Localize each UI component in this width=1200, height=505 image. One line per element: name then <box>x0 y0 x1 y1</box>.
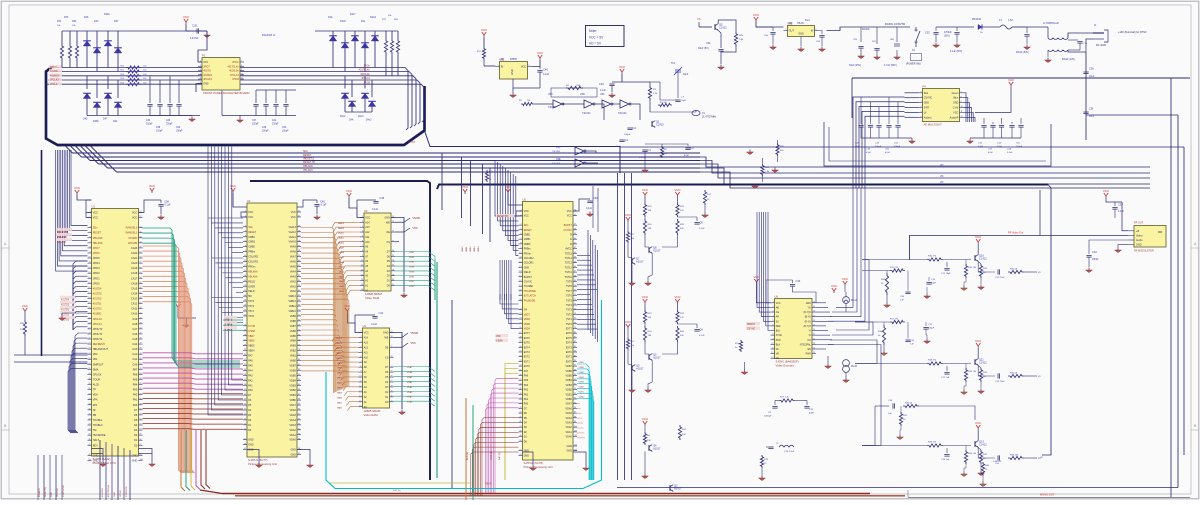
svg-text:VDA7: VDA7 <box>407 366 413 369</box>
svg-text:15pF: 15pF <box>681 100 687 102</box>
svg-text:4: 4 <box>89 226 90 228</box>
svg-text:0.1uF: 0.1uF <box>321 204 328 207</box>
svg-text:VAB9: VAB9 <box>290 315 297 318</box>
svg-text:(B-Y)I: (B-Y)I <box>805 317 811 319</box>
svg-text:VDA: VDA <box>93 394 98 397</box>
svg-text:2: 2 <box>360 336 361 338</box>
svg-text:RAMSEL2: RAMSEL2 <box>126 227 138 230</box>
ground U51 <box>513 79 540 88</box>
svg-text:VBD4: VBD4 <box>524 328 531 331</box>
svg-text:5M: 5M <box>248 295 251 298</box>
svg-text:11: 11 <box>520 257 522 259</box>
power VCC buffer stage Q9 <box>642 295 649 304</box>
diode D50 PR1S40 <box>936 26 974 28</box>
svg-text:C40: C40 <box>166 120 171 122</box>
svg-text:6: 6 <box>362 240 363 242</box>
svg-text:EXT6: EXT6 <box>524 337 531 340</box>
svg-text:IN: IN <box>811 30 814 33</box>
svg-text:58: 58 <box>140 247 142 249</box>
svg-text:51: 51 <box>298 216 300 218</box>
svg-text:DC/DC CONVTR: DC/DC CONVTR <box>885 22 905 26</box>
svg-text:CA9: CA9 <box>132 318 137 321</box>
net labels PPU2 left red <box>496 214 514 217</box>
svg-text:A10: A10 <box>365 241 370 244</box>
svg-text:C54: C54 <box>706 42 711 45</box>
svg-text:66: 66 <box>574 266 576 268</box>
svg-text:84: 84 <box>298 379 300 381</box>
svg-text:VCC: VCC <box>619 65 626 69</box>
svg-text:20: 20 <box>813 329 815 331</box>
resistor R2 2M <box>660 146 663 158</box>
wire orange vertical to bottom <box>465 398 467 500</box>
svg-text:72: 72 <box>140 317 142 319</box>
svg-text:A14: A14 <box>365 221 370 224</box>
svg-text:TM: TM <box>93 429 97 432</box>
svg-text:33: 33 <box>244 369 246 371</box>
svg-text:DAT (6): DAT (6) <box>498 452 501 460</box>
svg-text:GND: GND <box>953 102 959 105</box>
svg-text:HVCMODE: HVCMODE <box>524 290 537 293</box>
svg-text:PA4: PA4 <box>248 369 253 372</box>
svg-text:7: 7 <box>961 91 962 93</box>
capacitor C36 C38 C40 C42 (port filter) <box>149 76 151 103</box>
svg-text:Note:: Note: <box>589 29 597 33</box>
svg-text:VDB3: VDB3 <box>566 384 573 387</box>
power VCC encoder <box>753 275 760 284</box>
svg-text:CA22: CA22 <box>131 252 138 255</box>
svg-text:TST8: TST8 <box>566 285 573 288</box>
wire bottom rail 1 <box>617 487 1178 489</box>
svg-text:VCC: VCC <box>481 28 488 32</box>
svg-text:C2: C2 <box>691 146 695 150</box>
svg-text:MONO OUT: MONO OUT <box>1040 493 1055 497</box>
svg-text:6: 6 <box>520 233 521 235</box>
svg-text:4700uF: 4700uF <box>944 32 952 34</box>
capacitor C92 bypass PPU2 <box>573 199 590 211</box>
svg-text:JPIO7: JPIO7 <box>93 247 101 250</box>
svg-text:5.37M: 5.37M <box>248 325 255 328</box>
ic U4 Video RAM 128kB SRAM <box>359 324 394 417</box>
svg-text:CS: CS <box>386 241 390 244</box>
svg-text:COLOR1: COLOR1 <box>248 261 259 264</box>
svg-text:VDB0: VDB0 <box>579 396 585 398</box>
wire bottom buffer mesh <box>641 470 649 472</box>
wire bus right section (VD rails) <box>700 157 1150 167</box>
ground osc right <box>747 150 754 155</box>
svg-text:CSYNC: CSYNC <box>524 281 533 284</box>
svg-text:R: R <box>570 234 572 237</box>
svg-text:EXT3: EXT3 <box>566 346 573 349</box>
svg-text:50: 50 <box>298 211 300 213</box>
svg-text:83: 83 <box>140 373 142 375</box>
transistor Q3 A1017 second <box>632 365 635 372</box>
svg-text:CA10: CA10 <box>131 313 138 316</box>
svg-text:59: 59 <box>140 252 142 254</box>
svg-text:18: 18 <box>813 320 815 322</box>
svg-text:76: 76 <box>574 313 576 315</box>
svg-text:TST3: TST3 <box>248 300 255 303</box>
svg-text:30pF: 30pF <box>683 74 689 76</box>
svg-text:78: 78 <box>574 322 576 324</box>
wire power rail across <box>756 26 773 28</box>
svg-text:14: 14 <box>359 395 361 397</box>
svg-text:CPUCK: CPUCK <box>93 373 102 376</box>
svg-text:11: 11 <box>360 381 362 383</box>
svg-text:U5: U5 <box>523 197 527 201</box>
svg-text:3: 3 <box>200 69 201 71</box>
resistor R20 5k6 near PPU2 top <box>776 143 779 156</box>
svg-text:VAA12: VAA12 <box>338 232 345 235</box>
wire fan VAB into U4 <box>332 337 359 341</box>
svg-text:GND: GND <box>114 492 116 497</box>
power VCC mid2 <box>149 184 156 193</box>
svg-text:CA15: CA15 <box>131 287 138 290</box>
svg-text:WRAM.D: WRAM.D <box>38 487 41 497</box>
fuse F1 1.5A <box>982 26 1000 28</box>
svg-text:VAB6: VAB6 <box>290 330 297 333</box>
svg-text:22: 22 <box>244 315 246 317</box>
svg-text:CA5: CA5 <box>132 338 137 341</box>
svg-text:VD: VD <box>940 164 944 167</box>
svg-text:8: 8 <box>241 65 242 67</box>
resistor R22 1.8k <box>761 164 764 176</box>
svg-text:C44: C44 <box>378 311 383 315</box>
svg-text:10: 10 <box>244 255 246 257</box>
svg-text:330pF: 330pF <box>1092 259 1099 261</box>
svg-text:A1017: A1017 <box>653 447 661 451</box>
svg-text:COLOR1: COLOR1 <box>524 262 535 265</box>
svg-text:PA5: PA5 <box>133 378 138 381</box>
wire AV loop rails <box>852 77 1190 79</box>
capacitor C101 0.047uF <box>185 24 187 31</box>
svg-text:11: 11 <box>241 78 243 80</box>
svg-text:20: 20 <box>391 346 393 348</box>
svg-text:VDB3: VDB3 <box>409 271 415 273</box>
wire bus VDB teal U3 to PPU2 <box>395 252 435 301</box>
ground Q16 emitter <box>961 286 968 291</box>
svg-text:HBLANK: HBLANK <box>303 165 313 168</box>
svg-text:102: 102 <box>574 435 577 437</box>
svg-text:PA4: PA4 <box>524 384 529 387</box>
wire av nested loop <box>824 122 1051 166</box>
svg-text:TST1: TST1 <box>566 318 573 321</box>
wire bus CA (salmon) CPU to cart <box>143 246 182 473</box>
svg-text:PA0: PA0 <box>248 389 253 392</box>
svg-text:104: 104 <box>574 445 577 447</box>
svg-text:150pF: 150pF <box>156 131 163 133</box>
svg-text:U4: U4 <box>363 324 367 328</box>
svg-text:CA8: CA8 <box>132 323 137 326</box>
svg-text:U6: U6 <box>775 294 779 298</box>
svg-text:HBLANK: HBLANK <box>57 241 67 244</box>
svg-text:*VMWR: *VMWR <box>410 333 419 335</box>
capacitor C37 C39 C41 C43 (port filter 2) <box>255 90 257 103</box>
svg-text:U5D: U5D <box>580 93 585 96</box>
transistor Q11 C1412 amp <box>975 359 978 366</box>
svg-text:C43: C43 <box>282 127 287 129</box>
svg-text:GND: GND <box>290 454 296 457</box>
svg-text:VDB7: VDB7 <box>579 362 585 364</box>
svg-text:SDn: SDn <box>524 224 529 227</box>
svg-text:VAB12: VAB12 <box>289 300 297 303</box>
svg-text:WE: WE <box>386 221 390 224</box>
svg-text:C1: C1 <box>648 148 652 152</box>
svg-text:0.033uF: 0.033uF <box>639 157 648 159</box>
svg-text:8: 8 <box>772 334 773 336</box>
svg-text:99: 99 <box>298 453 300 455</box>
svg-text:GND: GND <box>798 33 804 36</box>
svg-text:0.1uF: 0.1uF <box>586 207 593 210</box>
wire stubs PPU1 left mid rows <box>212 257 243 259</box>
svg-text:JPIO5: JPIO5 <box>93 257 101 260</box>
svg-text:VCC: VCC <box>1103 189 1110 193</box>
svg-text:PA1: PA1 <box>524 398 529 401</box>
svg-text:70: 70 <box>298 310 300 312</box>
svg-text:VAA10: VAA10 <box>289 241 297 244</box>
svg-text:36: 36 <box>88 388 90 390</box>
svg-text:VBD4: VBD4 <box>248 350 255 353</box>
svg-text:94: 94 <box>140 429 142 431</box>
svg-text:42: 42 <box>519 402 521 404</box>
wire bundle CPU left to top outline <box>71 150 88 226</box>
svg-text:49: 49 <box>519 435 521 437</box>
svg-text:VCC: VCC <box>642 295 649 299</box>
svg-text:VDA5: VDA5 <box>290 414 297 417</box>
ground Q13 emitter <box>961 472 968 477</box>
ground caps U52 out <box>858 54 865 59</box>
svg-text:86: 86 <box>298 389 300 391</box>
svg-text:GND: GND <box>132 454 138 457</box>
svg-text:4017D1: 4017D1 <box>93 303 102 306</box>
svg-text:59: 59 <box>574 233 576 235</box>
svg-text:VCC: VCC <box>674 295 681 299</box>
svg-text:74: 74 <box>574 304 576 306</box>
svg-text:2: 2 <box>816 29 817 31</box>
svg-text:VDB6: VDB6 <box>290 369 297 372</box>
svg-text:76: 76 <box>140 338 142 340</box>
ground L2 network <box>759 476 766 481</box>
svg-text:77: 77 <box>140 343 142 345</box>
resistor emitter Q13 <box>978 447 981 450</box>
svg-text:C92: C92 <box>599 82 604 86</box>
svg-text:8: 8 <box>961 96 962 98</box>
svg-text:JPOUT0: JPOUT0 <box>93 328 103 331</box>
wire teal vertical to bottom <box>472 405 474 500</box>
svg-text:JPIO2: JPIO2 <box>93 272 101 275</box>
svg-text:3: 3 <box>920 101 921 103</box>
wire video in mesh <box>862 270 890 272</box>
svg-text:D4x2: D4x2 <box>366 120 372 122</box>
svg-text:VDB4: VDB4 <box>409 267 415 269</box>
svg-text:JPIO4: JPIO4 <box>93 262 101 265</box>
svg-text:150pF: 150pF <box>176 131 183 133</box>
svg-text:R35 10k: R35 10k <box>968 267 977 269</box>
svg-text:85: 85 <box>298 384 300 386</box>
svg-text:6: 6 <box>360 356 361 358</box>
capacitor SW reg cap <box>956 27 958 31</box>
svg-text:Picture Processing Unit: Picture Processing Unit <box>248 462 277 466</box>
connector DC JACK <box>1093 30 1108 42</box>
svg-text:1uF: 1uF <box>910 344 914 346</box>
wire bottom rail 2 mono <box>908 497 1190 499</box>
svg-text:SDn: SDn <box>303 150 308 153</box>
svg-text:VAB13: VAB13 <box>289 295 297 298</box>
svg-text:38: 38 <box>519 384 521 386</box>
svg-text:CMB1: CMB1 <box>524 234 531 237</box>
svg-text:VDA6: VDA6 <box>566 407 573 410</box>
svg-text:74CU04: 74CU04 <box>548 107 557 109</box>
wire vcc to cap C98 <box>139 200 162 213</box>
ground emitter Q13 <box>978 471 985 476</box>
svg-text:CSYNC: CSYNC <box>563 229 572 232</box>
svg-text:25: 25 <box>88 333 90 335</box>
svg-text:93: 93 <box>574 393 576 395</box>
capacitor C45 0.1uF bypass U3 <box>357 200 376 208</box>
power VCC U51 input <box>481 28 488 37</box>
capacitor C18 1uF mono mix <box>893 403 895 408</box>
ic U52 regulator 78L05 <box>784 21 819 36</box>
svg-text:VBLANK: VBLANK <box>248 275 258 278</box>
svg-text:AVCC: AVCC <box>565 248 572 251</box>
svg-text:VDB2: VDB2 <box>290 389 297 392</box>
resistor R71 input <box>482 47 485 60</box>
svg-text:22: 22 <box>88 317 90 319</box>
svg-text:(B-Y)O: (B-Y)O <box>804 326 811 328</box>
svg-text:4017CLKn: 4017CLKn <box>227 65 239 68</box>
svg-text:VDA2: VDA2 <box>566 426 573 429</box>
svg-text:CHR: CHR <box>524 266 529 269</box>
svg-text:CA23: CA23 <box>131 247 138 250</box>
power VCC oscillator <box>619 65 626 74</box>
svg-text:42: 42 <box>244 414 246 416</box>
svg-text:1/2PRGCK: 1/2PRGCK <box>126 486 128 497</box>
svg-text:S-RT: S-RT <box>924 107 930 110</box>
svg-text:U5A: U5A <box>600 93 605 96</box>
svg-text:SDn: SDn <box>93 227 98 230</box>
svg-text:72: 72 <box>298 320 300 322</box>
svg-text:10: 10 <box>361 260 363 262</box>
svg-text:VDA4: VDA4 <box>290 419 297 422</box>
svg-text:9: 9 <box>245 250 246 252</box>
wire thick bus to PPU2 column <box>250 181 430 480</box>
svg-text:CS: CS <box>385 356 389 359</box>
svg-text:12: 12 <box>88 267 90 269</box>
svg-text:Video RAM: Video RAM <box>364 413 379 417</box>
svg-text:ALCK: ALCK <box>93 384 100 387</box>
capacitor C19 <box>768 447 773 449</box>
svg-text:4: 4 <box>360 346 361 348</box>
wire P1 vcc <box>198 31 207 62</box>
svg-text:JPCLK1: JPCLK1 <box>93 323 103 326</box>
svg-text:7: 7 <box>245 240 246 242</box>
svg-text:CA0: CA0 <box>132 363 137 366</box>
svg-text:7: 7 <box>89 241 90 243</box>
ic U2 S-PPU1 (5C77) Picture Processing Unit <box>243 199 301 466</box>
transistor Q16 C1412 amp <box>975 255 978 262</box>
svg-text:68: 68 <box>574 275 576 277</box>
svg-text:VCC: VCC <box>642 188 649 192</box>
capacitor C52 input filter <box>935 27 937 31</box>
svg-text:TST13: TST13 <box>565 262 573 265</box>
svg-text:VDA1: VDA1 <box>566 431 573 434</box>
svg-text:44: 44 <box>519 412 521 414</box>
svg-text:VCC: VCC <box>93 217 98 220</box>
svg-text:V5D: V5D <box>496 336 501 338</box>
svg-text:EXT1: EXT1 <box>524 360 531 363</box>
svg-text:VCC: VCC <box>1008 78 1015 82</box>
ic U6 S-ENC BA6592F Video Encoder <box>771 294 817 367</box>
svg-text:VS: VS <box>697 17 701 21</box>
svg-text:C30: C30 <box>1118 203 1123 207</box>
svg-text:VAA8: VAA8 <box>290 251 297 254</box>
svg-text:TST3: TST3 <box>566 309 573 312</box>
svg-text:150pF: 150pF <box>252 124 259 126</box>
svg-text:15: 15 <box>88 282 90 284</box>
svg-text:69: 69 <box>140 302 142 304</box>
wire inverter outputs <box>586 151 596 153</box>
svg-text:16: 16 <box>361 289 363 291</box>
wire bundle CPU left lower <box>75 333 88 433</box>
power VCC between CPU PPU1 <box>175 300 182 309</box>
svg-text:91: 91 <box>140 414 142 416</box>
capacitor C50 line <box>1068 39 1078 41</box>
capacitor C12 18pF coupling <box>946 262 948 267</box>
svg-text:C11 22uF: C11 22uF <box>995 277 1005 279</box>
wire buffer stage mesh Q9 <box>644 324 646 326</box>
svg-text:18: 18 <box>392 221 394 223</box>
svg-text:(35V): (35V) <box>944 36 950 38</box>
svg-text:PRGm: PRGm <box>524 252 531 255</box>
ground Q5 <box>718 65 725 70</box>
resistor output R46 100 <box>1008 456 1024 459</box>
svg-text:22: 22 <box>519 308 521 310</box>
resistor R7 1.2k osc <box>649 82 651 86</box>
svg-text:46: 46 <box>519 421 521 423</box>
svg-text:2M: 2M <box>664 153 667 155</box>
svg-text:24: 24 <box>519 318 521 320</box>
svg-text:NTSC/PAL: NTSC/PAL <box>800 343 812 346</box>
svg-text:VAA10: VAA10 <box>338 241 345 244</box>
svg-text:JPCLK2: JPCLK2 <box>50 79 59 82</box>
diode D58 D59 D60 (right lower) <box>344 76 346 89</box>
svg-text:BLK: BLK <box>776 331 781 333</box>
svg-text:1uF: 1uF <box>888 413 892 415</box>
svg-text:47pF: 47pF <box>684 155 690 157</box>
svg-text:86: 86 <box>574 360 576 362</box>
svg-text:PRGm: PRGm <box>248 265 255 268</box>
svg-text:VCC: VCC <box>674 188 681 192</box>
resistor Q9 upper <box>644 304 646 310</box>
wire bus front-panel right (5 nets) <box>240 68 408 131</box>
svg-text:35: 35 <box>519 369 521 371</box>
svg-text:VBD5: VBD5 <box>524 323 531 326</box>
svg-text:VCC: VCC <box>753 13 760 17</box>
transistor Q13 C1412 amp <box>975 441 978 448</box>
svg-text:RESET.7B: RESET.7B <box>303 161 315 164</box>
svg-text:9: 9 <box>360 371 361 373</box>
svg-text:A1017: A1017 <box>636 260 644 264</box>
svg-text:61: 61 <box>298 265 300 267</box>
svg-text:COLOR2: COLOR2 <box>524 257 535 260</box>
svg-text:18: 18 <box>244 295 246 297</box>
resistor R40 56 <box>903 404 919 407</box>
svg-text:47pF: 47pF <box>885 152 891 154</box>
svg-text:85: 85 <box>140 383 142 385</box>
svg-text:16: 16 <box>359 405 361 407</box>
svg-text:81: 81 <box>298 364 300 366</box>
svg-text:21: 21 <box>244 310 246 312</box>
wire right rail horizontals <box>1086 114 1178 116</box>
